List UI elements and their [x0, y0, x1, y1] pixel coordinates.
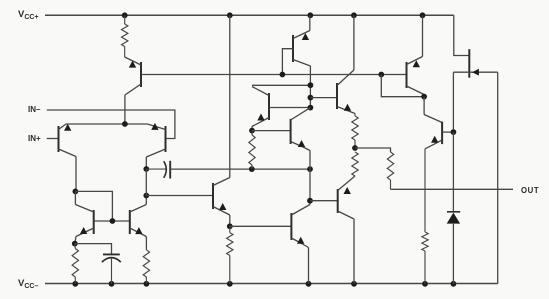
wire OUT: [391, 188, 514, 190]
node Q6 emitter junction: [227, 223, 233, 229]
wire Q8 emitter to Q8a base: [252, 130, 291, 132]
node bias junction at Q7 base: [280, 72, 286, 78]
junction on VCC+ at Q7 emitter: [307, 12, 313, 18]
transistor Q12 upper output NPN: [423, 97, 425, 115]
wire C1 to Q8 emitter column: [170, 168, 310, 170]
capacitor C2: [75, 244, 112, 255]
wire J3 drain to Q12 base: [452, 72, 454, 132]
resistor R6: [352, 152, 358, 176]
node Q10 collector junction: [421, 94, 427, 100]
node Q5 collector junction: [143, 193, 149, 199]
transistor J3 output JFET gate wire: [454, 15, 470, 55]
node Q8a emitter junction: [307, 166, 313, 172]
net VCC+ rail: [45, 14, 454, 16]
wire IN+ input: [47, 138, 59, 140]
resistor R1: [124, 15, 126, 24]
transistor J3 source-drain lead: [453, 71, 497, 73]
junction on VCC- at D1: [451, 281, 457, 287]
transistor Q13 NPN: [290, 213, 292, 240]
junction on VCC+ at Q9 collector: [351, 12, 357, 18]
resistor R2: [74, 244, 77, 249]
resistor R5: [352, 116, 358, 140]
wire bias line: [141, 74, 407, 76]
junction on VCC+ at Q6 collector: [227, 12, 233, 18]
diode D1: [452, 132, 454, 212]
junction on VCC- at R2: [72, 281, 78, 287]
node Q8 emitter junction: [249, 128, 255, 134]
node junction A Q2 drain: [73, 189, 79, 195]
label OUT: [521, 186, 539, 195]
node Q12 base junction: [451, 129, 457, 135]
transistor Q6 second stage NPN: [212, 183, 214, 209]
node Q13 collector junction: [307, 198, 313, 204]
junction on VCC+ at R1: [122, 12, 128, 18]
node bias junction at Q10 base: [378, 72, 384, 78]
label VCC-: [18, 278, 38, 290]
wire mirror base line: [94, 220, 130, 222]
resistor R4: [251, 131, 253, 135]
junction on VCC- at Q11 collector: [351, 281, 357, 287]
node net X upper junction: [308, 82, 314, 88]
label VCC+: [18, 9, 39, 21]
transistor Q9 driver NPN: [336, 83, 338, 109]
junction on VCC- at Q13 emitter: [306, 281, 312, 287]
resistor R9: [422, 232, 428, 251]
resistor R3: [143, 250, 149, 277]
junction on VCC+ at Q10 emitter: [420, 12, 426, 18]
node output network junction: [352, 145, 358, 151]
net VCC- rail: [45, 283, 498, 285]
transistor Q10 diode-connected PNP: [406, 62, 408, 88]
junction on VCC- at R9: [422, 281, 428, 287]
transistor Q4 mirror left NPN: [93, 210, 95, 234]
wire Q6 emitter to Q13 base: [230, 225, 292, 227]
transistor J3 channel bar: [468, 49, 470, 77]
wire Q6 base: [146, 195, 213, 197]
node R4 bottom junction: [249, 166, 255, 172]
transistor Q8a NPN: [290, 119, 292, 144]
capacitor C1: [146, 168, 166, 170]
wire common source line: [66, 123, 147, 125]
resistor R8: [229, 226, 231, 232]
transistor Q1 PNP current source: [140, 62, 142, 87]
junction on VCC- at R8: [227, 281, 233, 287]
wire net X to Q9 base: [310, 97, 337, 99]
wire J3 source to VCC-: [497, 72, 499, 284]
node common source junction: [122, 121, 128, 127]
node junction B mirror bases: [110, 218, 116, 224]
label IN+: [28, 134, 41, 143]
transistor Q8 diode-connected NPN: [268, 93, 270, 120]
wire Q10 base-collector tie: [381, 75, 424, 97]
wire Q13 collector to Q11 base: [310, 200, 338, 202]
node net X middle junction: [308, 95, 314, 101]
node Q3 drain junction: [143, 166, 149, 172]
transistor Q3 right input: [165, 126, 167, 152]
node junction C Q4 emitter: [72, 241, 78, 247]
junction on VCC- at C2: [109, 281, 115, 287]
resistor R7: [387, 152, 393, 180]
node net X lower junction: [308, 105, 314, 111]
transistor Q7 bias PNP: [292, 35, 294, 62]
transistor Q11 lower output: [337, 189, 339, 213]
wire mirror diode connection: [75, 191, 112, 221]
wire IN- input: [47, 110, 175, 139]
transistor Q2 left input: [58, 126, 60, 152]
wire to R7: [355, 148, 391, 152]
label IN-: [28, 105, 40, 114]
junction on VCC- at R3: [144, 281, 150, 287]
transistor Q5 mirror right NPN: [129, 210, 131, 234]
